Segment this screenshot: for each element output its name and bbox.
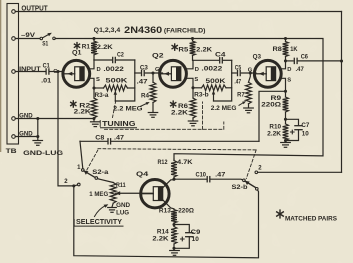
svg-text:500K: 500K (106, 77, 128, 84)
svg-text:C3: C3 (140, 65, 149, 71)
wire Q1 source (90, 77, 101, 98)
node output/C6 junction (340, 59, 343, 62)
resistor R6 2.2K (171, 98, 196, 120)
svg-text:SELECTIVITY: SELECTIVITY (76, 219, 122, 226)
wire Q4 gate from R11 (115, 191, 153, 195)
wire Q4 drain (163, 180, 174, 188)
wire GND loop (15, 119, 38, 141)
wire stage1 right vertical (115, 60, 135, 101)
potentiometer R3-a 500K (94, 77, 135, 101)
node gate Q2 junction (151, 67, 160, 74)
svg-text:1 MEG: 1 MEG (89, 191, 108, 198)
ground R4 (148, 113, 157, 118)
svg-text:2.2K: 2.2K (196, 46, 212, 53)
svg-text:220Ω: 220Ω (178, 208, 194, 215)
ground R14 (170, 248, 180, 255)
wire Q2 drain (186, 60, 199, 73)
wire output right vertical (341, 12, 343, 173)
svg-text:500K: 500K (206, 78, 226, 85)
node GND loop upper (36, 117, 39, 120)
wire GND row to R2 (15, 118, 94, 120)
wire INPUT to C1 (15, 71, 45, 73)
capacitor C2 .0022 (94, 53, 135, 74)
svg-text:TUNING: TUNING (102, 121, 136, 128)
svg-text:.47: .47 (234, 80, 241, 86)
wire S2-b pole return (74, 186, 259, 258)
potentiometer R3-b 500K (193, 78, 232, 101)
svg-text:C8: C8 (95, 136, 105, 142)
svg-text:C9: C9 (191, 230, 201, 236)
node R2 bottom (92, 117, 95, 121)
svg-text:2.2K: 2.2K (171, 109, 188, 116)
resistor R9 220 (261, 95, 288, 119)
svg-text:2N4360: 2N4360 (124, 25, 162, 35)
capacitor C1 (41, 64, 52, 85)
switch S2-b (232, 179, 259, 191)
node rail R8 (284, 37, 287, 40)
svg-text:1K: 1K (290, 46, 297, 53)
svg-text:.01: .01 (41, 79, 52, 85)
svg-text:R4: R4 (141, 93, 149, 100)
svg-text:Q1,2,3,4: Q1,2,3,4 (94, 27, 121, 34)
node S2-a contact 2 branch (72, 184, 75, 187)
svg-text:.0022: .0022 (201, 65, 222, 72)
ground GND-LUG terminal (23, 141, 63, 158)
capacitor C4 .0022 (193, 52, 232, 72)
label SELECTIVITY control (74, 204, 123, 226)
node R14 bottom (172, 247, 175, 250)
svg-text:4.7K: 4.7K (177, 159, 193, 166)
svg-text:R3-b: R3-b (194, 93, 209, 99)
resistor R4 2.2 MEG (141, 73, 156, 112)
switch S1 (40, 33, 55, 48)
svg-text:Q3: Q3 (253, 54, 262, 61)
wire C8 tap (259, 91, 286, 141)
resistor R2 2.2K (71, 98, 97, 118)
wire -9V rail (55, 39, 323, 160)
capacitor C7 10uF electrolytic (286, 119, 311, 140)
wire S2-a pole to R11 (98, 179, 114, 183)
capacitor C8 .47 (80, 136, 259, 144)
svg-text:2.2K: 2.2K (74, 108, 91, 115)
svg-text:C7: C7 (301, 123, 310, 129)
transistor Q4 (136, 171, 169, 208)
wire S2-b contact2 to output rail (258, 171, 342, 173)
terminal -9V (12, 32, 36, 40)
svg-text:Q1: Q1 (72, 50, 82, 57)
svg-text:S: S (287, 78, 291, 84)
svg-text:R10: R10 (269, 124, 281, 131)
svg-text:2.2 MEG: 2.2 MEG (113, 106, 143, 113)
resistor R8 1K (273, 39, 298, 61)
transistor Q2 (152, 52, 186, 87)
svg-text:2.2K: 2.2K (267, 131, 281, 138)
svg-text:.47: .47 (137, 79, 149, 85)
terminal GND upper (12, 112, 33, 120)
svg-text:S: S (96, 77, 100, 83)
wire Q3 source (281, 78, 291, 98)
wire Q2 source (186, 77, 198, 98)
label device type title (94, 25, 206, 35)
resistor R13 220 (159, 208, 195, 225)
svg-text:D: D (195, 67, 199, 73)
label TUNING ganged control (100, 100, 224, 130)
transistor Q3 (253, 54, 282, 88)
wire Q1 drain (90, 60, 101, 73)
wire OUTPUT top rail (15, 11, 341, 13)
terminal INPUT (12, 66, 41, 73)
svg-text:.47: .47 (215, 173, 226, 179)
node R10 bottom (284, 139, 287, 142)
transistor Q1 (63, 50, 90, 87)
ground R2 (91, 122, 101, 127)
svg-text:Q4: Q4 (136, 171, 149, 178)
svg-text:R1: R1 (82, 43, 91, 50)
wire -9V terminal to S1 (15, 38, 40, 40)
node R13 R14 C9 junction (172, 223, 175, 226)
svg-text:D: D (287, 67, 291, 73)
svg-text:10: 10 (192, 237, 200, 243)
capacitor C5 .47 (232, 65, 256, 85)
resistor R1 2.2K (74, 39, 113, 61)
svg-text:S2-b: S2-b (232, 185, 248, 191)
svg-text:C2: C2 (117, 53, 124, 59)
wire Q4 source (163, 200, 174, 210)
resistor R12 4.7K (158, 159, 193, 179)
svg-text:LUG: LUG (116, 210, 129, 217)
svg-text:D: D (97, 67, 101, 73)
node C8 tap on Q3 source (284, 90, 287, 93)
svg-text:Q2: Q2 (152, 52, 164, 59)
node gate Q3 junction (248, 68, 253, 75)
svg-text:S: S (194, 77, 198, 83)
svg-text:C10: C10 (196, 173, 207, 179)
svg-text:C1: C1 (43, 64, 51, 70)
resistor R5 2.2K (172, 39, 212, 61)
terminal block TB (6, 4, 19, 155)
svg-text:R8: R8 (273, 46, 283, 53)
ground R11 GND LUG (108, 202, 131, 217)
capacitor C9 10uF electrolytic (174, 225, 201, 249)
svg-text:R13: R13 (159, 208, 171, 215)
svg-text:GND: GND (116, 202, 131, 209)
wire Q3 drain (281, 61, 291, 73)
svg-text:S2-a: S2-a (92, 170, 109, 176)
svg-text:S1: S1 (42, 41, 48, 48)
switch S2-b contact 2 (255, 166, 262, 174)
svg-text:.0022: .0022 (103, 66, 124, 73)
terminal GND lower (12, 130, 33, 138)
svg-text:.47: .47 (296, 67, 305, 73)
switch S2-a contact 2 (64, 179, 80, 186)
node GND loop lower (36, 135, 39, 138)
svg-text:R11: R11 (116, 182, 126, 189)
node Q4 drain (172, 178, 175, 181)
wire C8 down to S2-a contact 1 (80, 141, 83, 168)
resistor R14 2.2K (152, 225, 177, 249)
label MATCHED PAIRS note (277, 210, 337, 222)
ground R7 (244, 108, 254, 113)
wire input tap down to S2-a (58, 72, 74, 186)
ground R10 (281, 141, 291, 148)
label 2.2 MEG pointing to R7 (211, 101, 246, 112)
svg-text:(FAIRCHILD): (FAIRCHILD) (164, 28, 206, 35)
capacitor C6 .47 (286, 55, 342, 74)
node R9 R10 C7 junction (284, 118, 287, 121)
svg-text:R3-a: R3-a (95, 93, 110, 99)
svg-text:R5: R5 (178, 46, 188, 53)
svg-text:C6: C6 (301, 55, 309, 61)
svg-text:GND-LUG: GND-LUG (23, 150, 63, 157)
svg-text:C4: C4 (215, 52, 226, 58)
node Q3 drain (284, 59, 287, 62)
svg-text:220Ω: 220Ω (261, 101, 282, 108)
svg-text:R7: R7 (237, 92, 245, 99)
resistor R7 2.2 MEG (237, 73, 251, 107)
switch S2-a (77, 165, 109, 179)
svg-text:MATCHED PAIRS: MATCHED PAIRS (285, 216, 337, 223)
wire stage2 right vertical (214, 60, 232, 101)
svg-text:10: 10 (302, 132, 310, 138)
svg-text:2.2 MEG: 2.2 MEG (211, 105, 237, 112)
svg-text:TB: TB (6, 148, 17, 155)
node input tap (56, 70, 59, 73)
ground R6 (188, 121, 197, 126)
wire C1 to Q1 gate (50, 69, 64, 75)
node Q1 source / pot (92, 86, 95, 89)
capacitor C3 .47 (135, 65, 163, 85)
node rail R5 (191, 37, 194, 40)
svg-text:2.2K: 2.2K (152, 235, 168, 242)
node Q2 source / pot (191, 86, 194, 89)
node rail R1 (92, 37, 95, 40)
resistor R10 2.2K (267, 119, 288, 140)
resistor R11 1 MEG (89, 182, 126, 203)
svg-text:C5: C5 (235, 65, 242, 71)
svg-text:.47: .47 (114, 136, 125, 142)
terminal OUTPUT (12, 6, 49, 14)
label 2.2 MEG pointing to R4 (113, 102, 150, 113)
capacitor C10 .47 (174, 173, 243, 182)
svg-text:2.2K: 2.2K (97, 44, 113, 51)
svg-text:R12: R12 (158, 159, 168, 166)
wire dashed gang S2-a to S2-b (87, 149, 256, 179)
